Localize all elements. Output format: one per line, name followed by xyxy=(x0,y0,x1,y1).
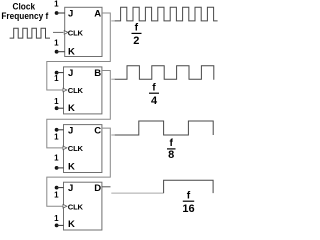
wire lead-in to waveform f/8 xyxy=(111,134,115,136)
wire J input of FF-C xyxy=(57,129,64,131)
wire K input of FF-D xyxy=(57,224,64,226)
svg-text:J: J xyxy=(68,125,73,136)
svg-text:1: 1 xyxy=(54,0,59,8)
waveform output A frequency f/2 xyxy=(115,7,218,21)
node dot K input of FF-A xyxy=(55,50,59,54)
wire output D stub xyxy=(102,186,111,188)
wire lead-in to waveform f/2 xyxy=(111,20,115,22)
svg-text:1: 1 xyxy=(54,74,59,83)
wire clock source to CLK pin of FF-A xyxy=(53,31,63,33)
svg-text:f: f xyxy=(169,138,173,149)
svg-text:B: B xyxy=(94,68,101,79)
flip-flop FF-C xyxy=(63,125,102,173)
FF-C body xyxy=(64,125,102,173)
wire K input of FF-C xyxy=(57,167,64,169)
wire lead-in and low segment of waveform f/16 xyxy=(111,192,163,194)
svg-text:K: K xyxy=(68,219,75,230)
wire output C to CLK pin of FF-D xyxy=(47,128,111,206)
svg-text:K: K xyxy=(68,161,75,172)
value label f/2 xyxy=(132,23,142,47)
waveform output D frequency f/16 xyxy=(164,180,214,193)
svg-text:CLK: CLK xyxy=(68,86,84,95)
value label f/16 xyxy=(182,190,194,214)
node dot K input of FF-B xyxy=(55,106,59,110)
node dot J input of FF-A xyxy=(55,11,59,15)
svg-text:1: 1 xyxy=(54,214,59,223)
svg-text:1: 1 xyxy=(54,97,59,106)
svg-text:f: f xyxy=(187,190,191,201)
svg-text:CLK: CLK xyxy=(68,144,84,153)
clock edge wedge of FF-B xyxy=(63,88,67,92)
flip-flop FF-D xyxy=(63,182,102,230)
svg-text:Frequency f: Frequency f xyxy=(1,10,48,21)
svg-text:4: 4 xyxy=(151,95,158,107)
svg-text:8: 8 xyxy=(168,149,174,161)
waveform output B frequency f/4 xyxy=(115,66,215,80)
clock input square-wave symbol xyxy=(10,28,50,38)
svg-text:J: J xyxy=(68,8,73,19)
node dot J input of FF-D xyxy=(55,186,59,190)
svg-text:CLK: CLK xyxy=(68,29,84,38)
svg-text:f: f xyxy=(135,23,139,34)
svg-text:2: 2 xyxy=(133,35,139,47)
wire output A to CLK pin of FF-B xyxy=(47,13,111,90)
node dot K input of FF-D xyxy=(55,224,59,228)
node dot J input of FF-C xyxy=(55,128,59,132)
wire J input of FF-B xyxy=(57,72,64,74)
FF-D body xyxy=(64,182,102,230)
clock edge wedge of FF-D xyxy=(63,204,67,208)
wire K input of FF-B xyxy=(57,107,64,109)
svg-text:1: 1 xyxy=(54,132,59,141)
svg-text:J: J xyxy=(68,183,73,194)
node dot K input of FF-C xyxy=(55,166,59,170)
svg-text:1: 1 xyxy=(54,154,59,163)
svg-text:1: 1 xyxy=(54,38,59,47)
wire K input of FF-A xyxy=(57,51,65,53)
node Clock Frequency f input label xyxy=(1,1,48,21)
value label f/4 xyxy=(149,82,159,106)
svg-text:K: K xyxy=(68,46,75,57)
clock edge wedge of FF-C xyxy=(63,146,67,150)
wire lead-in to waveform f/4 xyxy=(111,78,115,80)
clock edge wedge of FF-A xyxy=(64,31,68,35)
svg-text:CLK: CLK xyxy=(68,202,84,211)
svg-text:D: D xyxy=(94,183,101,194)
svg-text:A: A xyxy=(94,8,101,19)
flip-flop FF-A xyxy=(64,7,102,57)
waveform output C frequency f/8 xyxy=(115,121,213,135)
wire J input of FF-D xyxy=(57,187,64,189)
svg-text:C: C xyxy=(94,125,101,136)
svg-text:J: J xyxy=(68,68,73,79)
svg-text:f: f xyxy=(152,82,156,93)
node dot J input of FF-B xyxy=(55,71,59,75)
FF-A body xyxy=(65,7,102,56)
svg-text:16: 16 xyxy=(182,203,194,215)
flip-flop FF-B xyxy=(63,67,102,114)
wire output B to CLK pin of FF-C xyxy=(47,71,111,148)
svg-text:K: K xyxy=(68,103,75,114)
value label f/8 xyxy=(167,138,176,161)
FF-B body xyxy=(64,67,102,114)
wire J input of FF-A xyxy=(57,12,65,14)
svg-text:1: 1 xyxy=(54,190,59,199)
